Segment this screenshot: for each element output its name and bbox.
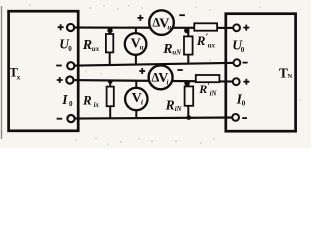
label R_ux [82,38,100,53]
label R_ix [82,92,99,108]
label R'_ux [196,32,216,50]
svg-text:i: i [167,78,169,86]
svg-text:ix: ix [94,102,100,109]
label R_iN [165,97,183,113]
wire V_u branch [135,28,137,65]
differential voltmeter dV_i [149,65,173,89]
svg-text:R: R [162,42,172,57]
terminal U+ of T_N [233,24,240,31]
wire I0- rail [71,118,236,119]
polarity + of dV_i [139,68,145,74]
polarity + at T_N U+ [243,25,249,31]
terminal I- of T_x [67,115,74,122]
svg-text:uN: uN [172,49,182,56]
terminal I- of T_N [232,114,239,121]
label U_0 of T_x [59,37,72,53]
polarity + of dV_u [137,15,143,21]
svg-text:iN: iN [210,90,218,98]
svg-text:R: R [82,38,92,53]
terminal U+ of T_x [67,24,74,31]
resistor R_iN [185,86,194,105]
terminal U- of T_N [234,59,241,66]
terminal I+ of T_x [66,77,73,84]
svg-text:0: 0 [242,100,246,108]
terminal I+ of T_N [233,78,240,85]
polarity + at T_x I+ [57,77,63,83]
junction dot R_iN tap [184,80,190,86]
resistor R_uN [184,36,193,54]
junction dot R_iN bottom [187,115,192,120]
resistor R_ux [106,34,113,52]
label U_0 of T_N [232,38,245,55]
svg-text:R: R [165,97,175,112]
differential voltmeter dV_u [149,10,174,35]
svg-text:R: R [196,33,206,48]
svg-text:R: R [198,82,207,96]
junction dot R_uN tap [184,28,189,33]
label R'_iN [198,82,217,98]
wire V_i branch [135,81,137,119]
svg-text:0: 0 [69,100,73,108]
voltmeter V_i [125,88,147,110]
resistor R_ix [107,87,114,107]
label T_N [279,65,293,80]
resistor R'_iN [196,75,220,82]
junction dot R_ux tap [107,28,112,33]
polarity - at T_x U- [56,65,62,67]
polarity - of dV_u [179,14,185,16]
label I_0 of T_x [61,92,73,108]
polarity + at T_N I+ [243,79,249,85]
junction dot R_ix tap [108,79,112,83]
polarity - of dV_i [177,69,182,71]
wire I0+ rail [70,80,236,82]
svg-text:N: N [288,73,293,80]
resistor R'_ux [194,23,217,30]
svg-text:0: 0 [241,46,245,54]
svg-text:u: u [167,24,171,32]
svg-text:iN: iN [175,106,183,113]
wire R_uN branch [187,29,189,64]
transformer box T_x [9,11,79,131]
wire U0- rail [71,63,237,66]
svg-text:u: u [140,43,144,51]
svg-text:x: x [16,72,21,81]
label I_0 of T_N [236,91,246,107]
polarity - at T_N I- [242,117,247,119]
transformer box T_N [226,14,296,132]
svg-text:ux: ux [208,43,216,50]
polarity - at T_N U- [243,62,248,64]
svg-text:ux: ux [92,45,100,53]
wire R_iN branch [187,81,189,117]
wire R_ux branch [109,28,111,66]
terminal U- of T_x [67,62,74,69]
polarity - at T_x I- [57,118,63,120]
svg-text:R: R [82,92,92,107]
svg-text:i: i [141,98,143,106]
wire R_ix branch [109,80,111,118]
voltmeter V_u [125,33,147,55]
svg-text:I: I [61,92,68,107]
label R_uN [162,42,182,57]
label T_x [9,65,20,82]
polarity + at T_x U+ [58,24,64,30]
wire U0+ rail [71,26,237,29]
svg-text:0: 0 [68,45,72,53]
svg-text:′: ′ [206,32,209,42]
